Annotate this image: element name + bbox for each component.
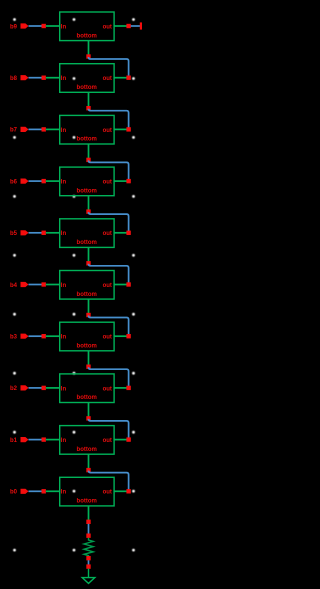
instance I6 (cell block, bit 4)	[60, 271, 114, 300]
wire b6 (pin to tap)	[29, 180, 43, 182]
junction on net b5	[42, 231, 46, 235]
wire bottom pin of I9	[88, 454, 90, 468]
input pin b1	[21, 437, 29, 442]
svg-text:b5: b5	[10, 231, 18, 237]
wire bottom pin of I3	[88, 144, 90, 158]
junction on net b9	[42, 24, 46, 28]
wire bottom of I6 to out node of I7	[89, 316, 129, 335]
wire b9 (pin to tap)	[29, 25, 43, 27]
wire b9 to In pin of I1	[46, 25, 61, 27]
svg-text:b2: b2	[10, 386, 18, 392]
junction bottom node of I10	[86, 520, 90, 524]
svg-text:bottom: bottom	[77, 240, 97, 246]
wire b4 to In pin of I6	[46, 284, 61, 286]
svg-text:bottom: bottom	[77, 33, 97, 39]
ground gnd!	[82, 569, 95, 584]
wire out pin of I2	[114, 77, 129, 79]
svg-text:In: In	[61, 335, 67, 341]
instance I4 (cell block, bit 6)	[60, 167, 114, 196]
wire b2 to In pin of I8	[46, 387, 61, 389]
junction bottom node of I9	[86, 468, 90, 472]
wire b4 (pin to tap)	[29, 284, 43, 286]
wire b8 (pin to tap)	[29, 77, 43, 79]
wire bottom pin of I8	[88, 403, 90, 417]
junction bottom node of I3	[86, 158, 90, 162]
wire R0 to ground	[88, 560, 90, 564]
wire out pin of I9	[114, 439, 129, 441]
svg-text:b3: b3	[10, 335, 18, 341]
wire b6 to In pin of I4	[46, 180, 61, 182]
junction on net b7	[42, 127, 46, 131]
wire b7 (pin to tap)	[29, 128, 43, 130]
svg-text:In: In	[61, 438, 67, 444]
junction node out8	[126, 76, 130, 80]
wire b5 (pin to tap)	[29, 232, 43, 234]
wire bottom pin of I2	[88, 92, 90, 106]
svg-text:In: In	[61, 386, 67, 392]
wire b1 to In pin of I9	[46, 439, 61, 441]
input pin b2	[21, 385, 29, 390]
input pin b8	[21, 75, 29, 80]
junction node out0	[126, 489, 130, 493]
wire b2 (pin to tap)	[29, 387, 43, 389]
svg-text:In: In	[61, 231, 67, 237]
wire bottom pin of I6	[88, 299, 90, 313]
junction resistor R0 top terminal	[86, 534, 90, 538]
wire out pin of I10	[114, 490, 129, 492]
wire out pin of I8	[114, 387, 129, 389]
junction on net b0	[42, 489, 46, 493]
wire bottom of I9 to out node of I10	[89, 471, 129, 490]
svg-text:out: out	[103, 24, 112, 30]
wire to output pin vout	[131, 25, 140, 27]
junction on net b8	[42, 76, 46, 80]
svg-text:In: In	[61, 180, 67, 186]
instance I10 (cell block, bit 0)	[60, 477, 114, 506]
wire bottom node to resistor R0	[88, 524, 90, 534]
svg-text:In: In	[61, 128, 67, 134]
instance I8 (cell block, bit 2)	[60, 374, 114, 403]
instance I2 (cell block, bit 8)	[60, 64, 114, 93]
svg-text:bottom: bottom	[77, 188, 97, 194]
junction on net b6	[42, 179, 46, 183]
instance I7 (cell block, bit 3)	[60, 322, 114, 351]
svg-text:In: In	[61, 283, 67, 289]
wire bottom of I3 to out node of I4	[89, 160, 129, 179]
input pin b7	[21, 127, 29, 132]
svg-text:b1: b1	[10, 438, 18, 444]
wire bottom of I5 to out node of I6	[89, 264, 129, 283]
svg-text:out: out	[103, 128, 112, 134]
wire out pin of I4	[114, 180, 129, 182]
svg-text:bottom: bottom	[77, 137, 97, 143]
svg-text:In: In	[61, 76, 67, 82]
input pin b5	[21, 230, 29, 235]
junction node out2	[126, 386, 130, 390]
input pin b0	[21, 489, 29, 494]
wire bottom pin of I4	[88, 196, 90, 210]
svg-text:b9: b9	[10, 24, 18, 30]
wire bottom of I8 to out node of I9	[89, 419, 129, 438]
svg-text:b8: b8	[10, 76, 18, 82]
svg-text:b7: b7	[10, 128, 18, 134]
svg-text:out: out	[103, 386, 112, 392]
input pin b3	[21, 334, 29, 339]
wire out pin of I7	[114, 335, 129, 337]
junction node out5	[126, 231, 130, 235]
svg-text:out: out	[103, 231, 112, 237]
svg-text:bottom: bottom	[77, 395, 97, 401]
svg-text:out: out	[103, 438, 112, 444]
wire out pin of I5	[114, 232, 129, 234]
wire b3 (pin to tap)	[29, 335, 43, 337]
svg-text:b0: b0	[10, 490, 18, 496]
junction on net b1	[42, 437, 46, 441]
junction node out4	[126, 282, 130, 286]
wire b0 (pin to tap)	[29, 490, 43, 492]
svg-text:out: out	[103, 490, 112, 496]
svg-text:In: In	[61, 24, 67, 30]
input pin b4	[21, 282, 29, 287]
wire bottom pin of I10	[88, 506, 90, 520]
junction ground node	[86, 564, 90, 568]
svg-text:bottom: bottom	[77, 85, 97, 91]
wire b8 to In pin of I2	[46, 77, 61, 79]
wire bottom of I1 to out node of I2	[89, 57, 129, 76]
instance I3 (cell block, bit 7)	[60, 115, 114, 144]
instance I1 (cell block, bit 9)	[60, 12, 114, 41]
junction node out6	[126, 179, 130, 183]
wire bottom pin of I7	[88, 351, 90, 365]
svg-text:In: In	[61, 490, 67, 496]
svg-text:b6: b6	[10, 179, 18, 185]
input pin b6	[21, 179, 29, 184]
junction bottom node of I2	[86, 106, 90, 110]
grid marker dots	[13, 18, 135, 551]
wire bottom of I2 to out node of I3	[89, 109, 129, 128]
wire bottom pin of I1	[88, 41, 90, 55]
wire out pin of I3	[114, 128, 129, 130]
junction node out9	[126, 24, 130, 28]
instance I9 (cell block, bit 1)	[60, 426, 114, 455]
junction bottom node of I5	[86, 261, 90, 265]
junction bottom node of I4	[86, 209, 90, 213]
svg-text:b4: b4	[10, 283, 18, 289]
wire b5 to In pin of I5	[46, 232, 61, 234]
output pin vout (clipped at edge)	[140, 22, 142, 29]
wire b1 (pin to tap)	[29, 439, 43, 441]
svg-text:bottom: bottom	[77, 344, 97, 350]
junction bottom node of I7	[86, 365, 90, 369]
wire out pin of I6	[114, 284, 129, 286]
wire b0 to In pin of I10	[46, 490, 61, 492]
junction bottom node of I1	[86, 54, 90, 58]
junction node out7	[126, 127, 130, 131]
junction bottom node of I6	[86, 313, 90, 317]
junction node out1	[126, 437, 130, 441]
junction on net b3	[42, 334, 46, 338]
svg-text:out: out	[103, 335, 112, 341]
junction node out3	[126, 334, 130, 338]
wire bottom of I4 to out node of I5	[89, 212, 129, 231]
wire bottom pin of I5	[88, 247, 90, 261]
junction on net b4	[42, 282, 46, 286]
svg-text:bottom: bottom	[77, 447, 97, 453]
resistor R0	[84, 538, 93, 556]
svg-text:out: out	[103, 76, 112, 82]
wire b7 to In pin of I3	[46, 128, 61, 130]
input pin b9	[21, 23, 29, 28]
svg-text:out: out	[103, 283, 112, 289]
junction on net b2	[42, 386, 46, 390]
wire out pin of I1	[114, 25, 129, 27]
svg-text:out: out	[103, 180, 112, 186]
wire bottom of I7 to out node of I8	[89, 367, 129, 386]
instance I5 (cell block, bit 5)	[60, 219, 114, 248]
wire b3 to In pin of I7	[46, 335, 61, 337]
svg-text:bottom: bottom	[77, 499, 97, 505]
svg-text:bottom: bottom	[77, 292, 97, 298]
junction bottom node of I8	[86, 416, 90, 420]
junction resistor R0 bottom terminal	[86, 556, 90, 560]
